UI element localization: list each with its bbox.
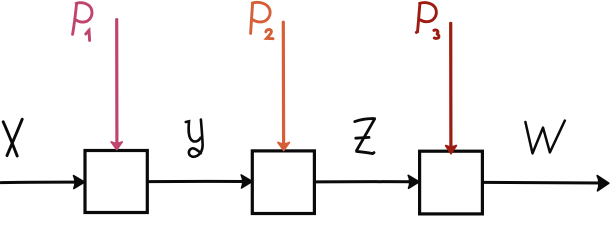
wire: output line from block 3 — [484, 181, 604, 185]
node label Z — [355, 119, 375, 154]
node label X — [3, 119, 22, 156]
wire: P2 input — [282, 22, 286, 142]
wire: P1 input — [115, 20, 118, 142]
wire: block 1 to block 2 — [149, 180, 248, 183]
arrowhead P3 into block 3 — [446, 146, 457, 154]
arrowhead into block 2 — [241, 175, 252, 188]
node label W — [525, 121, 564, 154]
arrowhead into block 3 — [408, 175, 419, 188]
wire: input line into block 1 — [1, 181, 79, 185]
label P3 — [416, 3, 439, 39]
arrowhead P1 into block 1 — [111, 142, 122, 150]
label P2 — [251, 2, 273, 38]
wire: P3 input — [449, 23, 452, 146]
arrowhead at output end — [597, 176, 609, 191]
label P1 — [73, 3, 92, 41]
block 3 — [420, 151, 483, 214]
arrowhead into block 1 — [74, 176, 85, 189]
node label y — [186, 120, 203, 157]
arrowhead P2 into block 2 — [278, 143, 289, 151]
wire: block 2 to block 3 — [316, 180, 415, 183]
block 2 — [252, 151, 314, 214]
block 1 — [85, 151, 147, 213]
